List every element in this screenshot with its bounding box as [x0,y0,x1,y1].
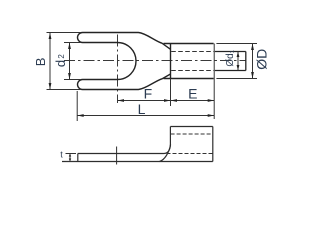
svg-text:d: d [53,60,68,67]
svg-text:ØD: ØD [253,49,269,70]
svg-text:B: B [33,58,48,67]
svg-text:L: L [138,101,146,117]
svg-text:F: F [144,86,153,102]
svg-text:2: 2 [57,54,66,59]
svg-text:E: E [188,86,197,102]
svg-text:Ød₁: Ød₁ [225,49,236,66]
